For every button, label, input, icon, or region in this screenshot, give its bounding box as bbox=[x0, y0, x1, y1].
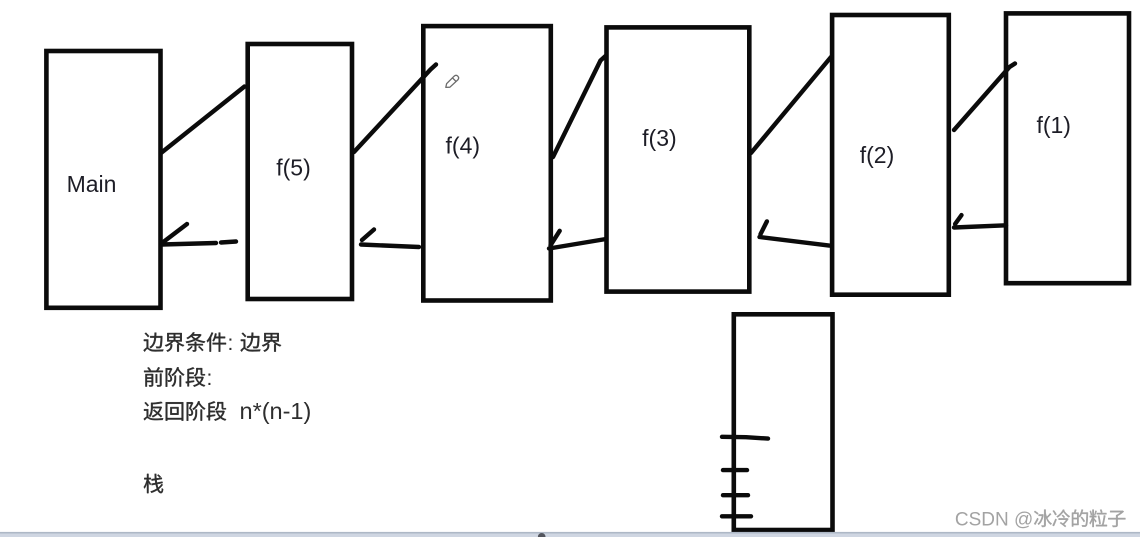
box f(2) bbox=[832, 15, 949, 295]
call arrow f(2) to f(1) bbox=[954, 64, 1015, 131]
return arrow f(3) to f(4) barb bbox=[551, 231, 560, 246]
note line 4: stack bbox=[144, 474, 163, 493]
player bar top line bbox=[0, 532, 1140, 534]
return arrow f(2) to f(3) shaft bbox=[760, 237, 830, 246]
box f(5) bbox=[248, 44, 352, 299]
svg-text:f(3): f(3) bbox=[642, 125, 677, 151]
svg-text:CSDN @: CSDN @ bbox=[955, 510, 1033, 531]
stack tick 4 bbox=[722, 514, 751, 518]
return arrow f(2) to f(3) barb bbox=[761, 221, 767, 234]
svg-text::: : bbox=[207, 367, 213, 390]
svg-text:f(2): f(2) bbox=[860, 142, 895, 168]
box f(3) bbox=[607, 27, 750, 291]
return arrow f(5) to Main shaft dash bbox=[221, 242, 236, 243]
note line 3: return stage n*(n-1) bbox=[144, 398, 312, 424]
return arrow f(4) to f(5) barb bbox=[362, 230, 374, 241]
box f(4) bbox=[423, 26, 551, 300]
return arrow f(4) to f(5) shaft bbox=[361, 245, 419, 248]
box Main bbox=[46, 51, 160, 308]
call arrow f(3) to f(2) bbox=[751, 57, 831, 153]
svg-text:f(5): f(5) bbox=[276, 154, 311, 180]
svg-text::: : bbox=[228, 332, 234, 355]
stack box bbox=[734, 314, 833, 530]
call arrow f(4) to f(3) bbox=[553, 56, 606, 157]
stack tick 3 bbox=[723, 493, 748, 497]
playhead dot bbox=[538, 533, 546, 541]
return arrow f(1) to f(2) barb bbox=[955, 215, 961, 224]
svg-text:f(1): f(1) bbox=[1036, 112, 1071, 138]
watermark CSDN bbox=[955, 509, 1126, 530]
call arrow f(5) to f(4) bbox=[354, 65, 436, 153]
return arrow f(3) to f(4) shaft bbox=[549, 239, 606, 249]
stack tick 2 bbox=[723, 468, 747, 472]
stack tick 1 bbox=[722, 437, 768, 439]
return arrow f(5) to Main shaft bbox=[162, 243, 216, 245]
svg-text:Main: Main bbox=[67, 171, 117, 197]
pencil cursor bbox=[446, 75, 459, 87]
note line 2: pre-stage bbox=[144, 367, 212, 390]
return arrow f(5) to Main barb bbox=[162, 224, 187, 243]
player bar body bbox=[0, 534, 1140, 538]
box f(1) bbox=[1006, 13, 1129, 283]
svg-text:n*(n-1): n*(n-1) bbox=[240, 398, 312, 424]
return arrow f(1) to f(2) shaft bbox=[954, 225, 1006, 227]
svg-text:f(4): f(4) bbox=[446, 133, 481, 159]
note line 1: boundary condition bbox=[144, 332, 282, 355]
call arrow Main to f(5) bbox=[161, 87, 245, 154]
